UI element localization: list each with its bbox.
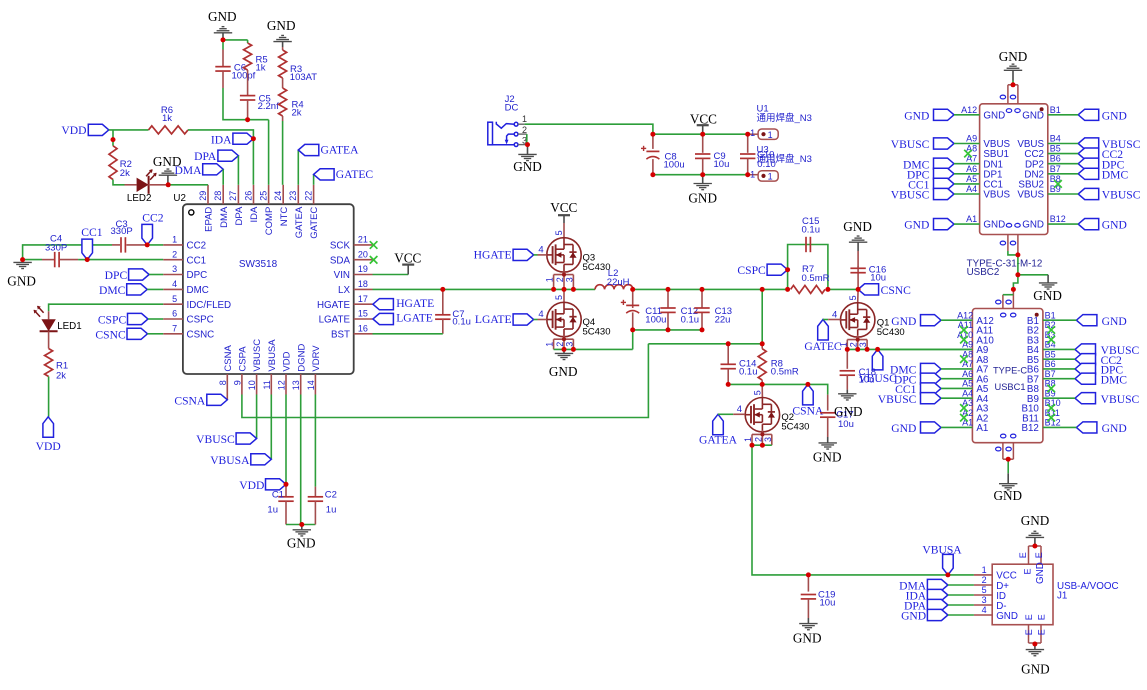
svg-text:1: 1 xyxy=(750,128,755,138)
svg-text:1u: 1u xyxy=(267,505,278,516)
svg-text:10u: 10u xyxy=(714,159,730,170)
svg-text:SW3518: SW3518 xyxy=(239,259,278,270)
svg-text:12: 12 xyxy=(277,380,287,390)
svg-text:27: 27 xyxy=(228,191,238,201)
svg-text:IDC/FLED: IDC/FLED xyxy=(187,300,232,311)
svg-text:23: 23 xyxy=(288,191,298,201)
svg-text:GND: GND xyxy=(994,488,1023,503)
svg-text:GND: GND xyxy=(688,190,717,205)
svg-text:4: 4 xyxy=(538,309,543,320)
svg-text:GND: GND xyxy=(1102,109,1127,122)
svg-text:VDD: VDD xyxy=(61,124,86,137)
svg-text:1k: 1k xyxy=(162,113,172,124)
svg-text:A6: A6 xyxy=(962,369,973,379)
svg-text:E: E xyxy=(1036,614,1046,620)
svg-text:HGATE: HGATE xyxy=(396,297,434,310)
svg-text:CSPC: CSPC xyxy=(737,264,766,277)
svg-text:13: 13 xyxy=(291,380,301,390)
svg-text:VBUSC: VBUSC xyxy=(1101,393,1140,406)
svg-text:C1: C1 xyxy=(272,490,284,501)
svg-text:GND: GND xyxy=(891,422,916,435)
svg-text:GND: GND xyxy=(1033,288,1062,303)
svg-text:1: 1 xyxy=(545,277,555,282)
svg-text:1: 1 xyxy=(768,172,773,182)
svg-text:E: E xyxy=(1034,552,1044,558)
svg-text:VDRV: VDRV xyxy=(311,345,322,372)
svg-text:VBUSA: VBUSA xyxy=(922,543,962,556)
svg-text:3: 3 xyxy=(172,264,177,274)
svg-text:通用焊盘_N3: 通用焊盘_N3 xyxy=(757,112,812,124)
svg-text:VDD: VDD xyxy=(282,351,293,371)
svg-text:COMP: COMP xyxy=(264,207,275,236)
svg-text:USBC1: USBC1 xyxy=(995,382,1026,392)
svg-text:VCC: VCC xyxy=(690,111,717,126)
svg-text:B12: B12 xyxy=(1021,423,1038,434)
svg-text:1: 1 xyxy=(750,170,755,180)
svg-text:A6: A6 xyxy=(966,164,977,174)
svg-text:CSNA: CSNA xyxy=(174,394,206,407)
svg-text:5C430: 5C430 xyxy=(877,327,905,338)
svg-text:A9: A9 xyxy=(962,340,973,350)
svg-text:VBUSC: VBUSC xyxy=(252,339,263,372)
svg-text:A4: A4 xyxy=(962,388,973,398)
svg-text:3: 3 xyxy=(564,277,574,282)
svg-text:7: 7 xyxy=(172,323,177,333)
svg-text:GATEA: GATEA xyxy=(321,144,360,157)
svg-text:SCK: SCK xyxy=(330,241,351,252)
svg-text:25: 25 xyxy=(258,191,268,201)
svg-text:100u: 100u xyxy=(664,159,685,170)
svg-text:A5: A5 xyxy=(966,174,977,184)
svg-text:10u: 10u xyxy=(838,419,854,430)
svg-text:GND: GND xyxy=(813,449,842,464)
svg-text:GND: GND xyxy=(1021,513,1050,528)
svg-text:1u: 1u xyxy=(326,505,337,516)
svg-text:USBC2: USBC2 xyxy=(967,267,1000,278)
svg-text:DPC: DPC xyxy=(187,270,208,281)
svg-text:GND: GND xyxy=(891,315,916,328)
svg-text:VBUSA: VBUSA xyxy=(267,339,278,372)
svg-text:5C430: 5C430 xyxy=(781,422,809,433)
svg-text:DMC: DMC xyxy=(1102,168,1129,181)
svg-text:B6: B6 xyxy=(1045,359,1056,369)
svg-text:DGND: DGND xyxy=(296,343,307,371)
svg-text:GND: GND xyxy=(7,273,36,288)
svg-text:19: 19 xyxy=(358,264,368,274)
svg-text:A12: A12 xyxy=(961,105,977,115)
svg-text:28: 28 xyxy=(213,191,223,201)
svg-text:14: 14 xyxy=(306,380,316,390)
svg-text:NTC: NTC xyxy=(279,207,290,227)
svg-text:1: 1 xyxy=(172,235,177,245)
svg-text:GND: GND xyxy=(1102,219,1127,232)
svg-text:LED1: LED1 xyxy=(57,321,82,332)
svg-text:10: 10 xyxy=(247,380,257,390)
svg-text:DPC: DPC xyxy=(105,269,128,282)
svg-text:J1: J1 xyxy=(1057,591,1067,602)
svg-text:TYPE-C: TYPE-C xyxy=(993,365,1027,375)
svg-text:LGATE: LGATE xyxy=(396,312,433,325)
svg-text:10u: 10u xyxy=(859,375,875,386)
svg-text:1: 1 xyxy=(522,114,527,124)
svg-text:VBUSC: VBUSC xyxy=(196,433,235,446)
svg-text:5: 5 xyxy=(982,585,987,595)
svg-text:17: 17 xyxy=(358,294,368,304)
svg-text:B7: B7 xyxy=(1050,164,1061,174)
svg-text:20: 20 xyxy=(358,249,368,259)
svg-text:VBUSC: VBUSC xyxy=(878,393,917,406)
svg-text:B5: B5 xyxy=(1045,349,1056,359)
svg-text:26: 26 xyxy=(243,191,253,201)
svg-text:LX: LX xyxy=(338,285,350,296)
svg-text:2: 2 xyxy=(982,575,987,585)
svg-text:330P: 330P xyxy=(45,243,67,254)
svg-text:GND: GND xyxy=(267,18,296,33)
svg-text:A7: A7 xyxy=(962,359,973,369)
svg-text:11: 11 xyxy=(262,380,272,389)
svg-text:VIN: VIN xyxy=(334,270,350,281)
svg-text:GND: GND xyxy=(513,159,542,174)
svg-text:LED2: LED2 xyxy=(127,193,152,204)
svg-text:1: 1 xyxy=(768,130,773,140)
svg-text:VCC: VCC xyxy=(550,200,577,215)
svg-text:A1: A1 xyxy=(966,214,977,224)
svg-text:6: 6 xyxy=(172,309,177,319)
svg-text:4: 4 xyxy=(172,279,177,289)
svg-text:B1: B1 xyxy=(1050,105,1061,115)
svg-text:A4: A4 xyxy=(966,184,977,194)
svg-text:A1: A1 xyxy=(976,423,988,434)
svg-text:VDD: VDD xyxy=(239,479,264,492)
svg-text:CSNC: CSNC xyxy=(95,328,126,341)
svg-text:VBUSC: VBUSC xyxy=(1102,189,1141,202)
svg-text:B7: B7 xyxy=(1045,369,1056,379)
svg-text:GATEC: GATEC xyxy=(804,340,842,353)
svg-text:CC1: CC1 xyxy=(187,255,207,266)
svg-text:E: E xyxy=(1018,552,1028,558)
svg-text:GND: GND xyxy=(843,219,872,234)
svg-text:GND: GND xyxy=(904,219,929,232)
svg-text:GND: GND xyxy=(983,220,1005,231)
svg-text:E: E xyxy=(1036,629,1046,635)
svg-text:CC2: CC2 xyxy=(142,212,163,225)
svg-text:GND: GND xyxy=(549,364,578,379)
svg-text:VDD: VDD xyxy=(36,440,61,453)
svg-text:BST: BST xyxy=(331,329,350,340)
svg-text:2k: 2k xyxy=(120,168,130,179)
svg-text:2k: 2k xyxy=(56,370,66,381)
svg-text:100u: 100u xyxy=(645,315,666,326)
svg-text:CSNC: CSNC xyxy=(881,284,912,297)
svg-text:SDA: SDA xyxy=(330,255,351,266)
svg-text:A7: A7 xyxy=(966,154,977,164)
svg-text:18: 18 xyxy=(358,279,368,289)
svg-text:CSNC: CSNC xyxy=(187,329,215,340)
svg-text:330P: 330P xyxy=(111,226,133,237)
svg-text:5C430: 5C430 xyxy=(583,327,611,338)
svg-text:A9: A9 xyxy=(966,134,977,144)
svg-text:9: 9 xyxy=(232,380,242,385)
svg-text:22uH: 22uH xyxy=(607,277,630,288)
svg-text:DMC: DMC xyxy=(1101,373,1128,386)
svg-text:GND: GND xyxy=(999,49,1028,64)
svg-text:GND: GND xyxy=(1102,422,1127,435)
svg-text:VBUS: VBUS xyxy=(1017,190,1044,201)
svg-text:0.5mR: 0.5mR xyxy=(802,273,830,284)
svg-text:GND: GND xyxy=(901,609,926,622)
svg-text:1k: 1k xyxy=(256,62,266,73)
svg-text:VBUSC: VBUSC xyxy=(891,138,930,151)
svg-text:4: 4 xyxy=(538,244,543,255)
svg-text:VBUSC: VBUSC xyxy=(891,189,930,202)
svg-text:A5: A5 xyxy=(962,379,973,389)
svg-text:U2: U2 xyxy=(173,193,186,204)
svg-text:CSPA: CSPA xyxy=(238,346,249,372)
svg-text:1: 1 xyxy=(545,342,555,347)
svg-text:3: 3 xyxy=(564,342,574,347)
svg-text:HGATE: HGATE xyxy=(317,300,350,311)
svg-text:5: 5 xyxy=(172,294,177,304)
svg-text:GATEC: GATEC xyxy=(309,207,320,239)
svg-text:GND: GND xyxy=(1035,562,1046,584)
svg-text:EPAD: EPAD xyxy=(204,207,215,232)
svg-text:5: 5 xyxy=(554,295,564,300)
svg-text:B6: B6 xyxy=(1050,154,1061,164)
svg-text:GND: GND xyxy=(1021,661,1050,676)
svg-text:GATEA: GATEA xyxy=(699,433,738,446)
svg-text:100pf: 100pf xyxy=(232,71,256,82)
svg-text:22: 22 xyxy=(303,191,313,201)
svg-text:GND: GND xyxy=(834,404,863,419)
svg-text:1: 1 xyxy=(743,437,753,442)
svg-text:5: 5 xyxy=(848,295,858,300)
svg-text:CSPC: CSPC xyxy=(98,314,127,327)
svg-text:IDA: IDA xyxy=(249,206,260,223)
svg-text:0.1u: 0.1u xyxy=(739,367,758,378)
svg-text:3: 3 xyxy=(763,437,773,442)
svg-text:A8: A8 xyxy=(966,144,977,154)
svg-text:GND: GND xyxy=(1022,110,1044,121)
svg-text:GND: GND xyxy=(208,9,237,24)
svg-text:103AT: 103AT xyxy=(290,72,317,83)
svg-text:通用焊盘_N3: 通用焊盘_N3 xyxy=(757,153,812,165)
svg-text:E: E xyxy=(1024,629,1034,635)
svg-text:DPA: DPA xyxy=(234,206,245,225)
svg-text:GND: GND xyxy=(287,536,316,551)
svg-text:GATEC: GATEC xyxy=(336,168,374,181)
svg-text:22u: 22u xyxy=(715,315,731,326)
svg-text:DMC: DMC xyxy=(99,284,126,297)
svg-text:VCC: VCC xyxy=(394,250,421,265)
svg-text:CC2: CC2 xyxy=(187,241,207,252)
svg-text:DPA: DPA xyxy=(194,150,217,163)
svg-text:10u: 10u xyxy=(820,598,836,609)
svg-text:CC1: CC1 xyxy=(81,226,102,239)
svg-text:VBUS: VBUS xyxy=(983,190,1010,201)
svg-text:24: 24 xyxy=(273,191,283,201)
svg-text:10u: 10u xyxy=(870,273,886,284)
svg-text:16: 16 xyxy=(358,323,368,333)
svg-text:1: 1 xyxy=(982,565,987,575)
svg-text:GND: GND xyxy=(983,110,1005,121)
svg-text:15: 15 xyxy=(358,309,368,319)
svg-text:VBUSA: VBUSA xyxy=(210,454,250,467)
svg-text:DMC: DMC xyxy=(187,285,209,296)
svg-text:29: 29 xyxy=(198,191,208,201)
svg-text:GND: GND xyxy=(1102,315,1127,328)
svg-text:2.2nf: 2.2nf xyxy=(258,101,279,112)
svg-text:CSNA: CSNA xyxy=(792,405,824,418)
svg-text:3: 3 xyxy=(982,595,987,605)
svg-text:E: E xyxy=(1023,568,1033,574)
svg-text:HGATE: HGATE xyxy=(474,249,512,262)
svg-text:GND: GND xyxy=(996,611,1018,622)
svg-text:GND: GND xyxy=(793,630,822,645)
svg-text:DMA: DMA xyxy=(174,164,202,177)
svg-text:CSPC: CSPC xyxy=(187,315,214,326)
svg-text:8: 8 xyxy=(218,380,228,385)
svg-text:LGATE: LGATE xyxy=(475,313,512,326)
svg-text:0.5mR: 0.5mR xyxy=(771,367,799,378)
svg-text:B5: B5 xyxy=(1050,144,1061,154)
svg-text:GND: GND xyxy=(904,109,929,122)
svg-text:IDA: IDA xyxy=(211,133,232,146)
svg-text:4: 4 xyxy=(982,605,987,615)
svg-text:B4: B4 xyxy=(1050,134,1061,144)
svg-text:B1: B1 xyxy=(1045,310,1056,320)
svg-text:5: 5 xyxy=(753,390,763,395)
svg-text:C2: C2 xyxy=(325,490,337,501)
svg-text:0.1u: 0.1u xyxy=(681,315,700,326)
svg-text:A1: A1 xyxy=(962,418,973,428)
svg-text:5C430: 5C430 xyxy=(583,262,611,273)
svg-text:A12: A12 xyxy=(957,310,973,320)
svg-text:0.1u: 0.1u xyxy=(802,225,821,236)
svg-text:GND: GND xyxy=(1022,220,1044,231)
svg-text:2: 2 xyxy=(522,125,527,135)
svg-text:5: 5 xyxy=(554,230,564,235)
svg-text:3: 3 xyxy=(858,342,868,347)
svg-text:DC: DC xyxy=(505,103,519,114)
svg-text:21: 21 xyxy=(358,235,368,245)
svg-text:2: 2 xyxy=(172,249,177,259)
svg-text:GATEA: GATEA xyxy=(294,206,305,238)
svg-text:0.1u: 0.1u xyxy=(452,317,471,328)
svg-text:2k: 2k xyxy=(292,108,302,119)
svg-text:DMA: DMA xyxy=(219,206,230,228)
svg-text:LGATE: LGATE xyxy=(319,315,351,326)
svg-text:B12: B12 xyxy=(1050,214,1066,224)
svg-text:CSNA: CSNA xyxy=(223,345,234,372)
svg-text:E: E xyxy=(1024,614,1034,620)
